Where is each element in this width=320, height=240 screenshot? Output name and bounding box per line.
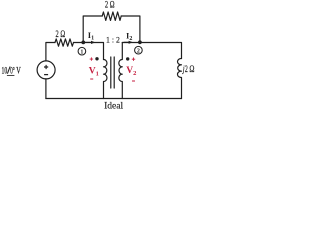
- wire rail node2 to right corner: [122, 43, 181, 59]
- V1 minus sign red: [90, 78, 93, 80]
- svg-text:V: V: [16, 65, 21, 76]
- resistor R 2ohm (series, left): [55, 39, 74, 46]
- svg-text:Ω: Ω: [189, 64, 194, 74]
- transformer core line right: [113, 57, 115, 88]
- voltage source minus: [44, 74, 48, 76]
- inductor j2ohm: [177, 58, 181, 98]
- svg-text:Ideal: Ideal: [104, 101, 123, 110]
- svg-text:2 Ω: 2 Ω: [105, 0, 115, 10]
- voltage source VS circle: [37, 61, 55, 79]
- wire bottom rail: [46, 98, 182, 100]
- svg-text:2: 2: [137, 48, 140, 54]
- V2 minus sign red: [132, 80, 135, 82]
- current arrow I1: [85, 41, 96, 44]
- svg-text:0°: 0°: [10, 65, 14, 76]
- svg-text:10: 10: [2, 65, 8, 76]
- wire rail node1 to primary corner: [74, 43, 104, 60]
- voltage source plus: [44, 65, 48, 69]
- wire bottom left vertical: [45, 79, 47, 99]
- current arrow I2: [124, 41, 133, 44]
- svg-text:2: 2: [185, 63, 188, 74]
- transformer secondary winding L2: [119, 43, 122, 99]
- transformer core line left: [110, 57, 112, 88]
- transformer primary winding L1: [104, 59, 107, 98]
- wire top branch right vertical: [121, 16, 140, 43]
- polarity dot secondary: [126, 57, 129, 60]
- label j2ohm: [182, 63, 194, 74]
- wire left vertical + top-left corner: [46, 43, 55, 61]
- node 2 junction dot: [138, 40, 142, 44]
- svg-text:2 Ω: 2 Ω: [55, 29, 65, 39]
- wire top branch left vertical: [83, 16, 102, 43]
- node 1 junction dot: [81, 41, 85, 45]
- node label circled 2: [135, 46, 143, 54]
- polarity dot primary: [95, 57, 98, 60]
- svg-text:1: 1: [80, 49, 83, 55]
- label source 10 angle 0 V: [2, 65, 21, 76]
- V1 plus sign red: [90, 57, 93, 60]
- resistor 2ohm (top branch): [102, 12, 121, 20]
- node label circled 1: [78, 47, 86, 55]
- V2 plus sign red: [132, 58, 135, 61]
- svg-text:1 : 2: 1 : 2: [106, 35, 120, 44]
